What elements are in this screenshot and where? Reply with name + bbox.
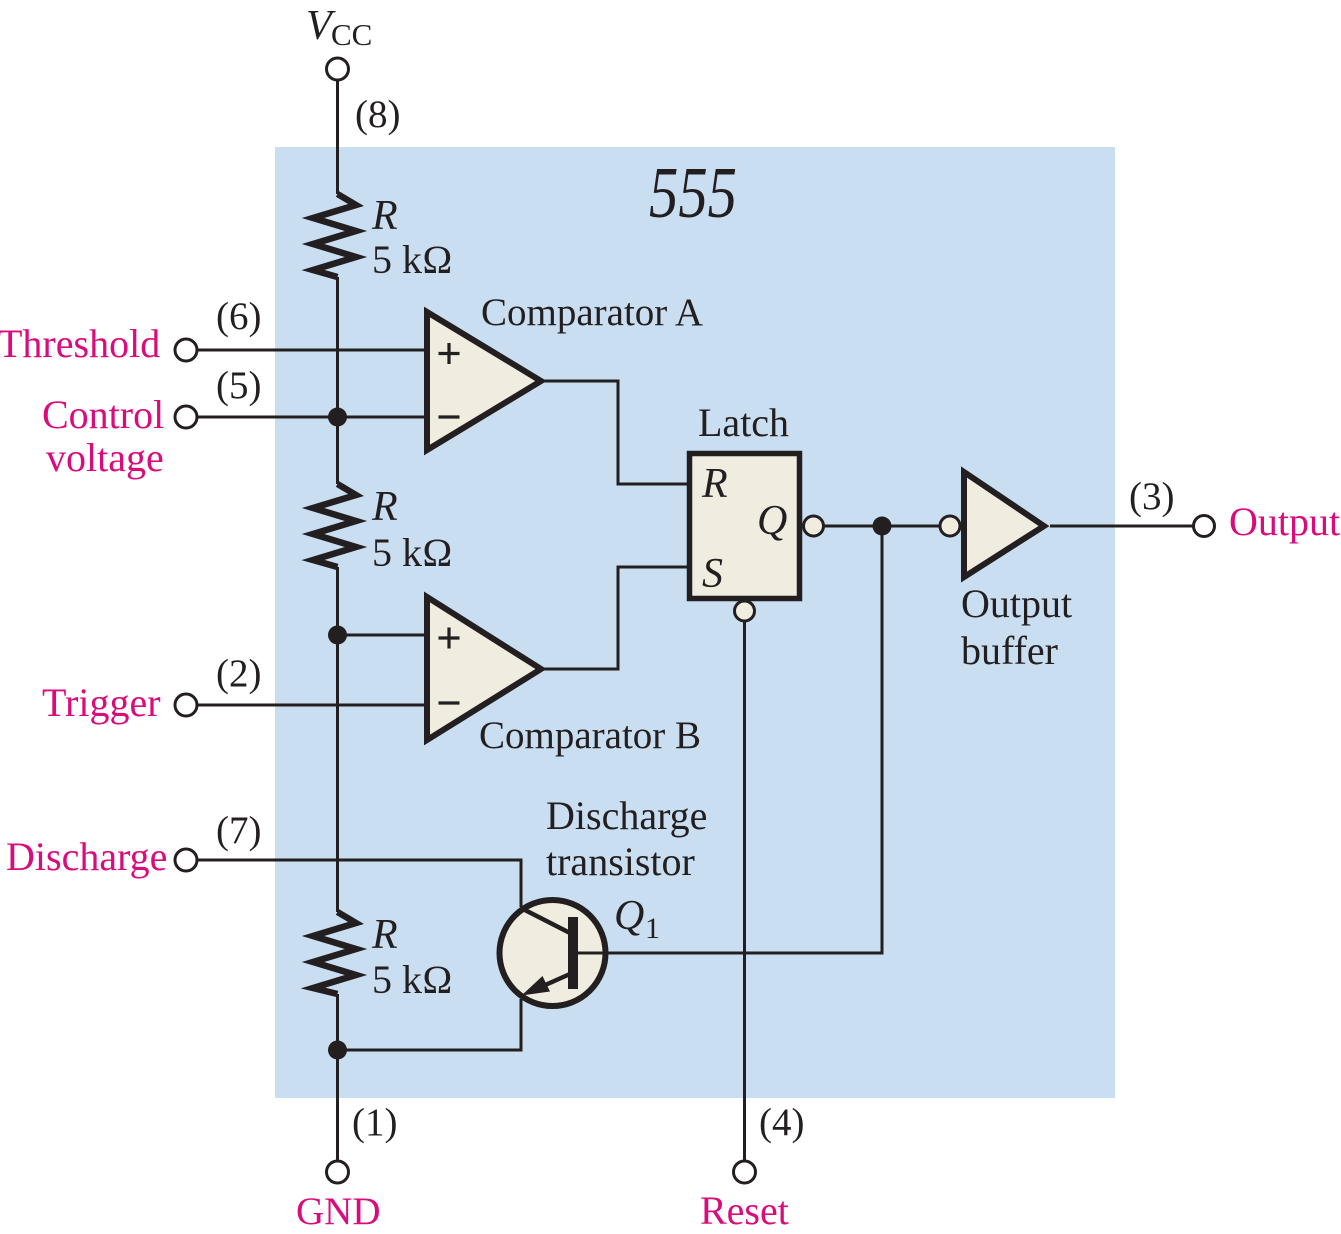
svg-text:Q: Q — [757, 498, 787, 544]
svg-text:Trigger: Trigger — [42, 680, 161, 725]
terminal Threshold pin 6 — [175, 339, 197, 361]
svg-text:Reset: Reset — [700, 1188, 789, 1233]
svg-text:(1): (1) — [352, 1101, 397, 1144]
plus input mark A — [439, 343, 460, 364]
svg-text:buffer: buffer — [961, 628, 1058, 673]
Q output bubble — [804, 516, 824, 536]
svg-text:R: R — [371, 484, 398, 530]
comparator B — [427, 597, 541, 740]
svg-text:555: 555 — [649, 152, 737, 233]
svg-text:voltage: voltage — [46, 435, 164, 480]
Q1 collector stroke — [521, 908, 570, 933]
terminal GND pin 1 — [327, 1161, 349, 1183]
svg-text:(6): (6) — [216, 295, 261, 338]
svg-text:S: S — [702, 551, 723, 597]
svg-text:(3): (3) — [1129, 475, 1174, 518]
transistor Q1 — [500, 900, 606, 1006]
terminal Output pin 3 — [1194, 516, 1215, 537]
Q1 base bar — [568, 917, 578, 989]
wire comparator B output to latch S — [544, 567, 687, 669]
Q1 emitter stroke with arrow — [534, 974, 570, 990]
wire Q to buffer — [824, 525, 940, 528]
svg-text:Control: Control — [42, 392, 164, 437]
svg-text:5 kΩ: 5 kΩ — [372, 530, 453, 575]
wire R2 to R3 — [336, 567, 339, 912]
node divider/compB junction — [328, 626, 347, 645]
svg-text:R: R — [371, 912, 398, 958]
minus input mark A — [439, 415, 460, 418]
wire Threshold — [197, 349, 427, 352]
svg-text:(2): (2) — [216, 652, 261, 695]
svg-text:R: R — [701, 461, 728, 507]
wire buffer to output — [1050, 525, 1193, 528]
minus input mark B — [439, 701, 460, 704]
node Q/base junction — [873, 517, 892, 536]
node emitter/ground junction — [328, 1041, 347, 1060]
wire Q junction down to transistor base — [578, 526, 882, 953]
wire Discharge — [197, 860, 521, 907]
terminal Discharge pin 7 — [175, 849, 197, 871]
svg-text:GND: GND — [296, 1190, 381, 1233]
svg-text:(5): (5) — [216, 364, 261, 407]
svg-text:Threshold: Threshold — [0, 321, 160, 366]
svg-text:R: R — [371, 193, 398, 239]
latch box — [690, 454, 800, 599]
output buffer — [964, 472, 1044, 577]
svg-text:(4): (4) — [759, 1101, 804, 1144]
555 IC body (blue box) — [275, 147, 1115, 1098]
svg-text:Comparator A: Comparator A — [481, 291, 703, 334]
svg-text:1: 1 — [645, 912, 660, 945]
resistor R3 5k — [313, 912, 356, 994]
svg-text:Output: Output — [1229, 499, 1340, 544]
terminal Vcc — [327, 58, 349, 80]
wire Control voltage — [197, 416, 427, 419]
wire emitter down to ground rail — [338, 999, 522, 1050]
terminal Control voltage pin 5 — [175, 406, 197, 428]
comparator A — [427, 312, 541, 450]
svg-text:5 kΩ: 5 kΩ — [372, 957, 453, 1002]
resistor R2 5k — [313, 484, 356, 567]
plus input mark B — [439, 628, 460, 649]
svg-text:Q: Q — [614, 893, 644, 939]
svg-text:5 kΩ: 5 kΩ — [372, 237, 453, 282]
terminal Trigger pin 2 — [175, 694, 197, 716]
svg-text:CC: CC — [331, 17, 372, 52]
svg-text:Discharge: Discharge — [6, 834, 167, 879]
wire R3 to GND — [336, 994, 339, 1161]
wire divider to comparator B plus — [338, 634, 428, 637]
resistor R1 5k — [313, 194, 356, 277]
latch S-bottom bubble — [735, 601, 755, 621]
svg-text:Discharge: Discharge — [546, 793, 707, 838]
wire comparator A output to latch R — [544, 381, 687, 484]
svg-text:Output: Output — [961, 581, 1072, 626]
svg-text:(8): (8) — [355, 93, 400, 136]
svg-text:(7): (7) — [216, 809, 261, 852]
wire Trigger — [197, 704, 427, 707]
terminal Reset pin 4 — [734, 1161, 756, 1183]
svg-text:transistor: transistor — [546, 839, 695, 884]
svg-text:Latch: Latch — [698, 400, 789, 445]
wire reset — [743, 621, 746, 1161]
svg-text:Comparator B: Comparator B — [479, 714, 701, 757]
buffer input bubble — [940, 516, 960, 536]
node control/divider junction — [328, 408, 347, 427]
wire R1 to R2 — [336, 277, 339, 484]
wire Vcc to R1 — [336, 80, 339, 194]
